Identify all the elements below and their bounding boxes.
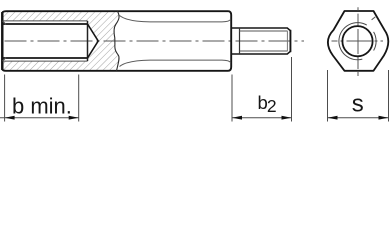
svg-text:b min.: b min.	[12, 94, 72, 119]
svg-text:s: s	[352, 90, 364, 117]
svg-text:2: 2	[267, 96, 277, 116]
